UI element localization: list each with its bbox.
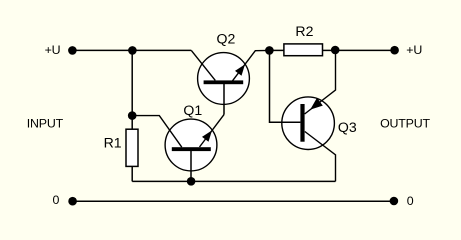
junction R2 left	[265, 46, 274, 55]
junction R1 top	[128, 111, 137, 120]
terminal 0 right	[390, 197, 399, 206]
junction R2 right	[331, 46, 340, 55]
svg-text:Q1: Q1	[183, 102, 202, 118]
wire top rail left	[72, 49, 191, 51]
transistor Q2	[191, 30, 269, 114]
terminal +U left	[68, 46, 77, 55]
wire bottom net	[132, 180, 335, 182]
svg-text:0: 0	[407, 194, 414, 208]
svg-text:R1: R1	[104, 135, 122, 151]
wire left vertical drop	[131, 50, 133, 115]
wire top rail right	[335, 49, 394, 51]
junction Q1 base	[187, 177, 196, 186]
resistor R2	[269, 23, 335, 56]
resistor R1	[104, 116, 138, 182]
svg-text:R2: R2	[295, 23, 313, 39]
transistor Q3	[270, 50, 357, 181]
terminal +U right	[390, 46, 399, 55]
svg-text:+U: +U	[45, 43, 61, 57]
junction top-left	[128, 46, 137, 55]
svg-text:Q2: Q2	[217, 30, 236, 46]
wire bottom rail	[73, 200, 394, 202]
svg-text:INPUT: INPUT	[27, 117, 64, 131]
svg-text:+U: +U	[406, 43, 422, 57]
svg-text:OUTPUT: OUTPUT	[380, 117, 430, 131]
terminal 0 left	[68, 197, 77, 206]
svg-text:Q3: Q3	[338, 119, 357, 135]
svg-text:0: 0	[53, 193, 60, 207]
transistor Q1	[132, 102, 224, 181]
